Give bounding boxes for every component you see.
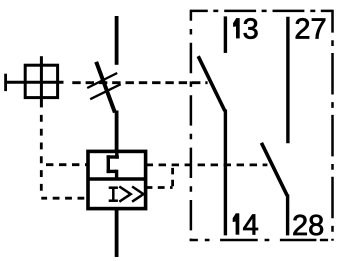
pin label 14	[233, 210, 259, 242]
aux contact 27-28: bottom terminal (pin 28)	[286, 195, 289, 236]
aux contact 13-14: bottom terminal (pin 14)	[224, 110, 227, 236]
magnetic release value label I>>	[109, 187, 144, 202]
breaker function marks (double slash across blade)	[87, 73, 121, 99]
svg-text:28: 28	[292, 210, 324, 242]
mechanical linkage (dashed): branch into thermal release	[41, 163, 88, 166]
mechanical linkage (dashed): branch into magnetic release	[41, 197, 87, 200]
svg-text:27: 27	[294, 13, 326, 45]
aux contact 27-28: moving blade	[261, 143, 287, 196]
wire: from main contact down to release box	[115, 111, 119, 153]
pin label 13	[233, 13, 259, 45]
mechanical linkage (dashed): from thermal release to aux contacts	[146, 163, 268, 166]
aux contact 27-28: top terminal (pin 27)	[286, 17, 289, 143]
aux contact 13-14: moving blade	[198, 56, 225, 111]
aux contact 13-14: top terminal (pin 13)	[224, 16, 227, 53]
enclosure: auxiliary contact block boundary (dash-dot)	[190, 10, 334, 241]
rotary handle / actuator (square with cross)	[5, 56, 64, 107]
mechanical linkage (dashed): vertical from handle down	[40, 108, 43, 194]
wire: bottom load line out of release box	[115, 208, 119, 258]
mechanical linkage (dashed): vertical jog joining magnetic release branch	[171, 165, 174, 188]
mechanical linkage (dashed): from magnetic release to jog	[146, 186, 173, 189]
svg-text:4: 4	[243, 210, 259, 242]
thermal overload release element (step detour)	[107, 151, 119, 179]
svg-text:3: 3	[243, 13, 259, 45]
mechanical linkage (dashed): handle to main contact and aux contact 13-14	[72, 81, 207, 84]
wire: top supply line into main pole	[115, 16, 119, 65]
main contact Q1 (breaker pole, moving blade)	[96, 62, 115, 113]
release box F1 (overload + short-circuit release)	[88, 151, 146, 208]
